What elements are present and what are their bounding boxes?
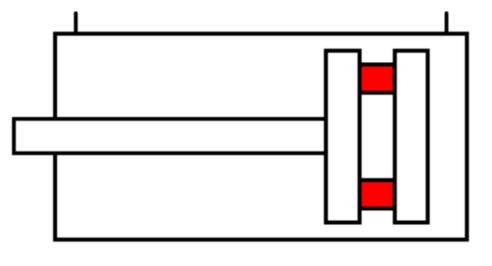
piston plate right (395, 51, 428, 223)
left port line (74, 13, 78, 33)
right port line (445, 13, 449, 33)
cylinder barrel (55, 34, 467, 240)
piston seal bottom (360, 180, 395, 208)
piston seal top (360, 65, 395, 93)
piston rod (14, 119, 326, 153)
piston plate left (326, 51, 360, 223)
